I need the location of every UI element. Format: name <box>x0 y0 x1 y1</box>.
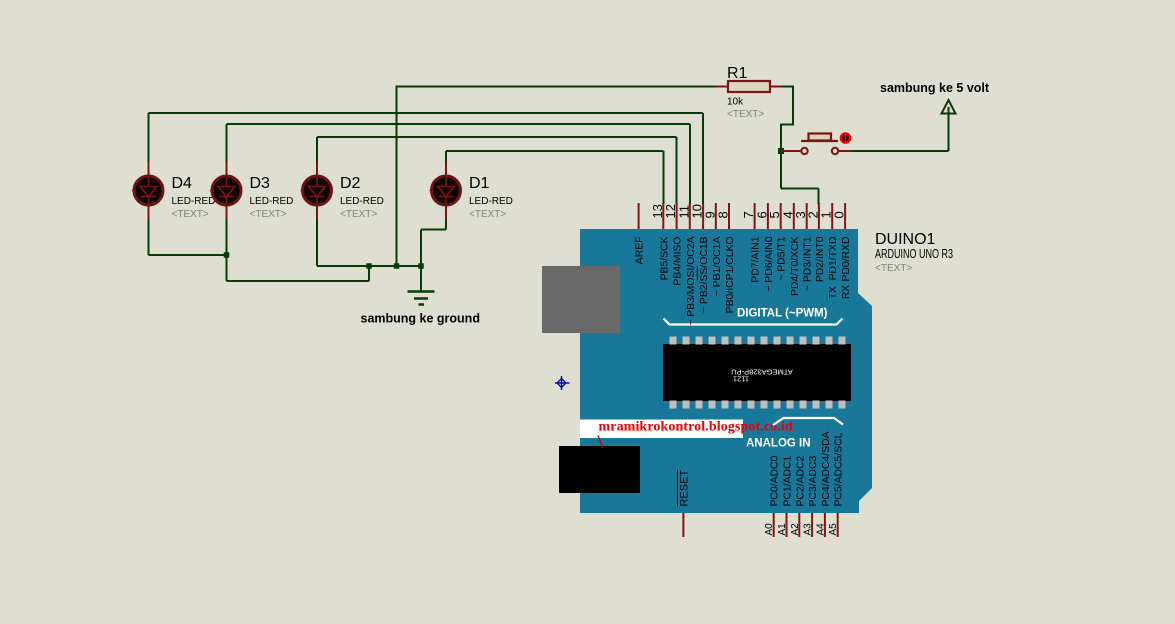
svg-text:DIGITAL (~PWM): DIGITAL (~PWM) <box>737 308 828 320</box>
svg-text:PC2/ADC2: PC2/ADC2 <box>795 455 806 506</box>
svg-text:~ PD6/AIN0: ~ PD6/AIN0 <box>764 236 775 291</box>
svg-text:PB4/MISO: PB4/MISO <box>673 237 684 286</box>
svg-text:D2: D2 <box>340 175 361 192</box>
svg-text:<TEXT>: <TEXT> <box>250 209 287 220</box>
svg-text:0: 0 <box>832 211 847 218</box>
svg-text:PC4/ADC4/SDA: PC4/ADC4/SDA <box>821 431 832 506</box>
svg-text:~ PB2/SS/OC1B: ~ PB2/SS/OC1B <box>699 236 710 313</box>
svg-text:PD1/TXD: PD1/TXD <box>828 237 839 281</box>
svg-text:RX: RX <box>841 285 852 299</box>
svg-text:PB0/ICP1/CLKO: PB0/ICP1/CLKO <box>725 237 736 314</box>
svg-text:LED-RED: LED-RED <box>469 196 513 207</box>
svg-text:PD2/INT0: PD2/INT0 <box>815 236 826 282</box>
svg-text:LED-RED: LED-RED <box>172 196 216 207</box>
svg-text:A3: A3 <box>803 523 814 536</box>
svg-text:<TEXT>: <TEXT> <box>172 209 209 220</box>
svg-text:10k: 10k <box>727 97 744 108</box>
svg-text:D4: D4 <box>172 175 193 192</box>
svg-text:PC0/ADC0: PC0/ADC0 <box>770 455 781 506</box>
svg-text:~ PD3/INT1: ~ PD3/INT1 <box>803 236 814 291</box>
svg-text:~ PD5/T1: ~ PD5/T1 <box>777 236 788 280</box>
svg-text:ARDUINO UNO R3: ARDUINO UNO R3 <box>875 247 953 261</box>
svg-text:A1: A1 <box>777 523 788 536</box>
svg-text:R1: R1 <box>727 65 748 82</box>
svg-text:PD0/RXD: PD0/RXD <box>841 237 852 282</box>
svg-text:PC3/ADC3: PC3/ADC3 <box>808 455 819 506</box>
svg-text:A0: A0 <box>764 523 775 536</box>
svg-text:D1: D1 <box>469 175 490 192</box>
svg-text:<TEXT>: <TEXT> <box>727 109 764 120</box>
svg-text:DUINO1: DUINO1 <box>875 231 936 248</box>
svg-text:~ PB1/OC1A: ~ PB1/OC1A <box>712 236 723 296</box>
svg-text:A2: A2 <box>790 523 801 536</box>
svg-text:D3: D3 <box>250 175 271 192</box>
svg-text:sambung ke ground: sambung ke ground <box>361 312 480 326</box>
svg-text:sambung ke 5 volt: sambung ke 5 volt <box>880 81 990 95</box>
svg-text:PC1/ADC1: PC1/ADC1 <box>783 455 794 506</box>
svg-text:<TEXT>: <TEXT> <box>340 209 377 220</box>
svg-text:1121: 1121 <box>733 375 749 384</box>
svg-text:LED-RED: LED-RED <box>340 196 384 207</box>
svg-text:~ PB3/MOSI/OC2A: ~ PB3/MOSI/OC2A <box>686 236 697 325</box>
svg-text:<TEXT>: <TEXT> <box>469 209 506 220</box>
svg-text:mramikrokontrol.blogspot.co.id: mramikrokontrol.blogspot.co.id <box>599 420 793 435</box>
svg-text:A5: A5 <box>828 523 839 536</box>
svg-text:PC5/ADC5/SCL: PC5/ADC5/SCL <box>834 432 845 506</box>
svg-text:<TEXT>: <TEXT> <box>875 263 912 274</box>
svg-text:TX: TX <box>828 286 839 299</box>
svg-text:A4: A4 <box>815 523 826 536</box>
svg-text:LED-RED: LED-RED <box>250 196 294 207</box>
svg-text:PB5/SCK: PB5/SCK <box>659 236 670 280</box>
svg-text:PD4/T0/XCK: PD4/T0/XCK <box>790 236 801 296</box>
svg-text:8: 8 <box>716 211 731 218</box>
svg-text:AREF: AREF <box>635 237 646 265</box>
svg-text:PD7/AIN1: PD7/AIN1 <box>751 236 762 282</box>
svg-text:RESET: RESET <box>678 470 690 507</box>
svg-text:ANALOG IN: ANALOG IN <box>746 438 811 450</box>
